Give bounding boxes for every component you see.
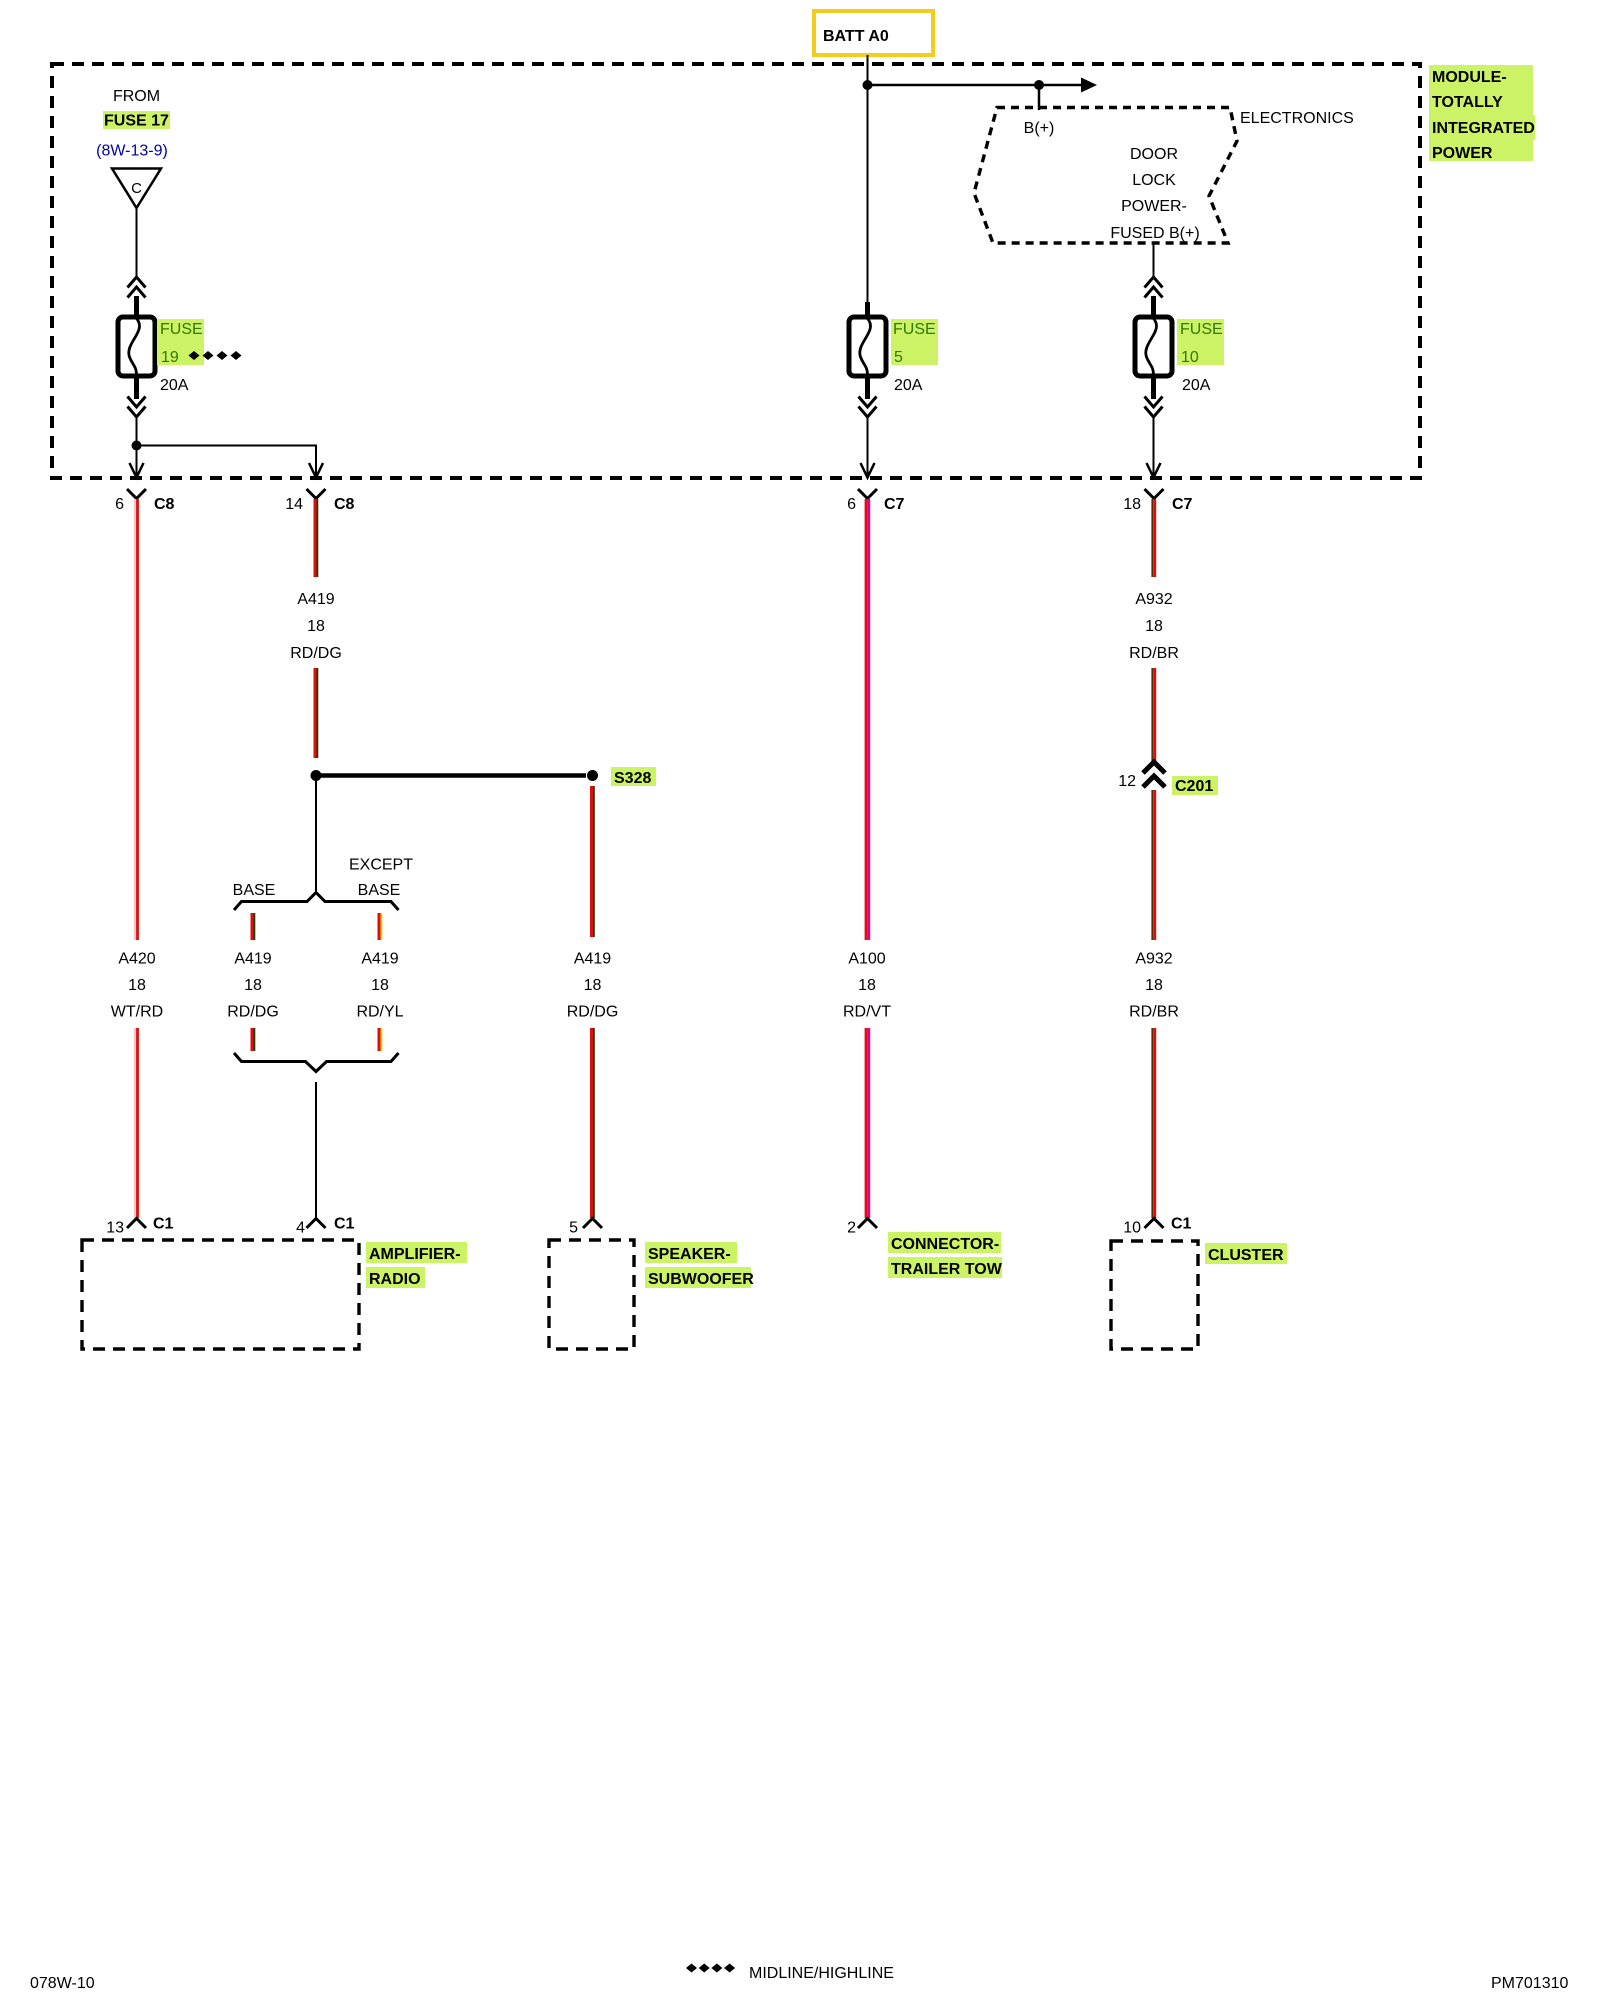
svg-text:A932: A932 xyxy=(1135,951,1172,968)
chevrons below fuse 19 xyxy=(128,397,146,418)
wire A419 RD/DG from S328 xyxy=(590,786,593,937)
wire A932 RD/BR mid xyxy=(1151,790,1153,940)
label MODULE-TOTALLY INTEGRATED POWER xyxy=(1429,65,1533,161)
wire stub BASE RD/DG xyxy=(251,913,254,940)
node on batt feed xyxy=(863,80,873,90)
svg-text:FUSED B(+): FUSED B(+) xyxy=(1110,225,1199,242)
svg-text:A419: A419 xyxy=(234,951,271,968)
svg-text:CLUSTER: CLUSTER xyxy=(1208,1247,1284,1264)
svg-text:C201: C201 xyxy=(1175,778,1213,795)
svg-text:18: 18 xyxy=(1145,977,1163,994)
svg-text:A100: A100 xyxy=(848,951,885,968)
electronics module polygon xyxy=(974,108,1237,244)
svg-text:C1: C1 xyxy=(153,1216,174,1233)
svg-text:18: 18 xyxy=(128,977,146,994)
connector C7 pin 18 xyxy=(1145,489,1164,499)
fuse 5 thick lead xyxy=(865,302,870,318)
svg-text:A419: A419 xyxy=(297,591,334,608)
svg-text:FUSE: FUSE xyxy=(893,321,936,338)
svg-text:WT/RD: WT/RD xyxy=(111,1004,163,1021)
svg-text:FUSE: FUSE xyxy=(1180,321,1223,338)
svg-text:B(+): B(+) xyxy=(1024,120,1055,137)
svg-text:RD/YL: RD/YL xyxy=(356,1004,403,1021)
svg-text:INTEGRATED: INTEGRATED xyxy=(1432,120,1535,137)
svg-text:S328: S328 xyxy=(614,770,651,787)
svg-text:A419: A419 xyxy=(574,951,611,968)
svg-text:SUBWOOFER: SUBWOOFER xyxy=(648,1271,754,1288)
svg-text:CONNECTOR-: CONNECTOR- xyxy=(891,1236,999,1253)
connector C7 pin 6 xyxy=(858,489,877,499)
svg-text:SPEAKER-: SPEAKER- xyxy=(648,1246,731,1263)
connector C1 pin 13 xyxy=(127,1219,146,1229)
cluster dashed box xyxy=(1111,1241,1198,1349)
svg-text:19: 19 xyxy=(161,349,179,366)
wire A932 RD/BR upper xyxy=(1151,499,1153,577)
connector C8 pin 14 xyxy=(307,489,326,499)
battery feed box BATT A0 xyxy=(814,11,933,55)
node B(+) branch xyxy=(1034,80,1044,90)
svg-text:10: 10 xyxy=(1181,349,1199,366)
svg-text:BASE: BASE xyxy=(233,882,276,899)
svg-text:FUSE 17: FUSE 17 xyxy=(104,113,169,130)
wire electronics to fuse 10 xyxy=(1153,243,1155,279)
svg-text:18: 18 xyxy=(1123,496,1141,513)
wire A420 WT/RD lower xyxy=(134,1028,136,1218)
svg-text:EXCEPT: EXCEPT xyxy=(349,857,413,874)
svg-text:18: 18 xyxy=(1145,618,1163,635)
svg-text:C: C xyxy=(131,180,142,197)
fuse F10 xyxy=(1135,317,1172,376)
svg-text:20A: 20A xyxy=(1182,377,1211,394)
split brace upper xyxy=(234,893,399,911)
svg-text:LOCK: LOCK xyxy=(1132,172,1176,189)
svg-text:12: 12 xyxy=(1118,773,1136,790)
connector C triangle xyxy=(112,169,161,209)
arrow into C8 pin 14 xyxy=(309,463,323,478)
connector C1 pin 10 xyxy=(1145,1219,1164,1229)
connector C1 pin 4 xyxy=(307,1219,326,1229)
chevrons into fuse 19 xyxy=(128,277,146,298)
svg-text:C1: C1 xyxy=(334,1216,355,1233)
splice S328 xyxy=(587,770,598,781)
svg-text:6: 6 xyxy=(115,496,124,513)
svg-text:18: 18 xyxy=(858,977,876,994)
svg-text:TRAILER TOW: TRAILER TOW xyxy=(891,1261,1003,1278)
svg-text:DOOR: DOOR xyxy=(1130,146,1178,163)
svg-text:ELECTRONICS: ELECTRONICS xyxy=(1240,110,1354,127)
chevrons below fuse 5 xyxy=(859,397,877,418)
wire A420 WT/RD upper xyxy=(134,499,136,940)
merge brace lower xyxy=(234,1053,399,1072)
svg-text:20A: 20A xyxy=(894,377,923,394)
node below fuse 19 xyxy=(132,441,142,451)
wire node down to electronics xyxy=(1038,85,1041,110)
svg-text:A419: A419 xyxy=(361,951,398,968)
connector-trailer tow label xyxy=(888,1232,1001,1253)
svg-text:6: 6 xyxy=(847,496,856,513)
svg-text:RD/VT: RD/VT xyxy=(843,1004,891,1021)
svg-text:C1: C1 xyxy=(1171,1216,1192,1233)
fuse F5 xyxy=(849,317,886,376)
svg-text:BASE: BASE xyxy=(358,882,401,899)
svg-text:MIDLINE/HIGHLINE: MIDLINE/HIGHLINE xyxy=(749,1965,894,1982)
module boundary dashed box (TIPM) xyxy=(52,64,1420,478)
svg-text:BATT A0: BATT A0 xyxy=(823,28,889,45)
wire splice down to split xyxy=(315,781,317,891)
svg-text:A932: A932 xyxy=(1135,591,1172,608)
wire arrow branch to right xyxy=(868,84,1083,87)
connector C8 pin 6 xyxy=(127,489,146,499)
arrow into C8 pin 6 xyxy=(130,463,144,478)
wire triangle to fuse 19 xyxy=(136,208,138,279)
wire fuse 19 to junction xyxy=(136,416,138,476)
fuse F19 xyxy=(118,317,155,376)
svg-text:A420: A420 xyxy=(118,951,155,968)
label FUSE 19 20A xyxy=(157,319,204,365)
midline/highline diamonds xyxy=(189,351,200,360)
wire merge to C1 pin 4 xyxy=(315,1082,317,1218)
svg-text:C8: C8 xyxy=(154,496,175,513)
svg-text:5: 5 xyxy=(569,1220,578,1237)
label FUSE 10 20A xyxy=(1177,319,1224,365)
svg-text:C7: C7 xyxy=(1172,496,1193,513)
svg-text:RD/DG: RD/DG xyxy=(227,1004,279,1021)
connector trailer tow pin 2 xyxy=(858,1219,877,1229)
wire A419 RD/DG from C8 pin 14 xyxy=(314,499,317,577)
svg-text:18: 18 xyxy=(584,977,602,994)
svg-text:10: 10 xyxy=(1123,1220,1141,1237)
chevrons into fuse 10 xyxy=(1145,277,1163,298)
svg-text:14: 14 xyxy=(285,496,303,513)
svg-text:RD/DG: RD/DG xyxy=(567,1004,619,1021)
arrow into C7 pin 6 xyxy=(861,463,875,478)
svg-text:20A: 20A xyxy=(160,377,189,394)
svg-text:FUSE: FUSE xyxy=(160,321,203,338)
connector subwoofer pin 5 xyxy=(583,1219,602,1229)
svg-text:RD/BR: RD/BR xyxy=(1129,1004,1179,1021)
wire BATT A0 down to fuse 5 xyxy=(867,55,869,303)
arrow into C7 pin 18 xyxy=(1147,463,1161,478)
svg-text:RADIO: RADIO xyxy=(369,1271,421,1288)
amplifier-radio dashed box xyxy=(82,1240,359,1349)
splice node xyxy=(311,770,322,781)
svg-text:TOTALLY: TOTALLY xyxy=(1432,94,1503,111)
chevrons below fuse 10 xyxy=(1145,397,1163,418)
svg-text:5: 5 xyxy=(894,349,903,366)
svg-text:078W-10: 078W-10 xyxy=(30,1975,95,1992)
svg-text:PM701310: PM701310 xyxy=(1491,1975,1568,1992)
wire branch to pin 14 xyxy=(137,446,317,477)
svg-text:C7: C7 xyxy=(884,496,905,513)
svg-text:C8: C8 xyxy=(334,496,355,513)
wire fuse 5 to C7 pin 6 xyxy=(867,416,869,476)
svg-text:18: 18 xyxy=(307,618,325,635)
svg-text:RD/DG: RD/DG xyxy=(290,645,342,662)
svg-text:2: 2 xyxy=(847,1220,856,1237)
svg-text:AMPLIFIER-: AMPLIFIER- xyxy=(369,1246,461,1263)
wire fuse 10 to C7 pin 18 xyxy=(1153,416,1155,476)
svg-text:18: 18 xyxy=(371,977,389,994)
svg-text:4: 4 xyxy=(296,1220,305,1237)
footer legend diamonds xyxy=(686,1964,697,1973)
wire stub EXCEPT BASE RD/YL xyxy=(378,913,381,940)
svg-text:POWER-: POWER- xyxy=(1121,198,1187,215)
speaker-subwoofer dashed box xyxy=(549,1240,634,1349)
svg-text:MODULE-: MODULE- xyxy=(1432,69,1507,86)
svg-text:13: 13 xyxy=(106,1220,124,1237)
svg-text:FROM: FROM xyxy=(113,88,160,105)
wire to splice S328 xyxy=(321,773,586,778)
svg-text:18: 18 xyxy=(244,977,262,994)
connector C201 pin 12 xyxy=(1143,762,1165,787)
svg-text:POWER: POWER xyxy=(1432,145,1493,162)
label FUSE 5 20A xyxy=(891,319,938,365)
wire A100 RD/VT xyxy=(865,499,868,940)
svg-text:RD/BR: RD/BR xyxy=(1129,645,1179,662)
svg-text:(8W-13-9): (8W-13-9) xyxy=(96,143,168,160)
